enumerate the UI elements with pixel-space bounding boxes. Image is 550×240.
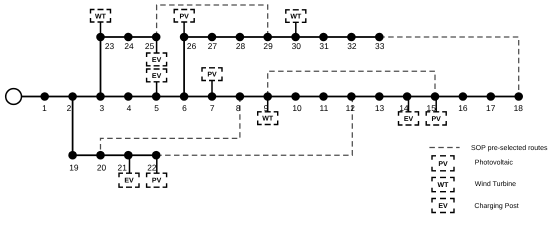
svg-text:27: 27 xyxy=(208,41,218,51)
svg-text:WT: WT xyxy=(95,13,107,20)
svg-text:16: 16 xyxy=(458,103,468,113)
svg-text:12: 12 xyxy=(346,103,356,113)
svg-text:7: 7 xyxy=(210,103,215,113)
svg-text:23: 23 xyxy=(105,41,115,51)
svg-text:14: 14 xyxy=(399,103,409,113)
svg-text:9: 9 xyxy=(264,103,269,113)
svg-text:Photovoltaic: Photovoltaic xyxy=(475,158,514,166)
svg-text:17: 17 xyxy=(486,103,496,113)
svg-text:Wind Turbine: Wind Turbine xyxy=(475,180,516,188)
svg-text:26: 26 xyxy=(187,41,197,51)
svg-text:18: 18 xyxy=(514,103,524,113)
svg-text:PV: PV xyxy=(207,72,217,79)
svg-text:20: 20 xyxy=(97,163,107,173)
svg-text:32: 32 xyxy=(347,41,357,51)
svg-text:PV: PV xyxy=(432,116,442,123)
svg-text:2: 2 xyxy=(67,103,72,113)
svg-text:13: 13 xyxy=(375,103,385,113)
svg-text:28: 28 xyxy=(236,41,246,51)
svg-text:25: 25 xyxy=(145,41,155,51)
svg-text:WT: WT xyxy=(262,116,274,123)
svg-text:WT: WT xyxy=(290,14,302,21)
svg-text:15: 15 xyxy=(427,103,437,113)
svg-text:24: 24 xyxy=(124,41,134,51)
svg-text:33: 33 xyxy=(375,41,385,51)
svg-text:EV: EV xyxy=(404,116,414,123)
svg-text:SOP pre-selected routes: SOP pre-selected routes xyxy=(471,144,548,152)
svg-text:19: 19 xyxy=(69,163,79,173)
svg-text:31: 31 xyxy=(319,41,329,51)
svg-text:PV: PV xyxy=(180,13,190,20)
svg-text:EV: EV xyxy=(124,178,134,185)
svg-text:EV: EV xyxy=(152,57,162,64)
svg-text:PV: PV xyxy=(152,178,162,185)
svg-text:3: 3 xyxy=(99,103,104,113)
svg-text:EV: EV xyxy=(152,73,162,80)
svg-text:11: 11 xyxy=(320,103,329,113)
svg-text:30: 30 xyxy=(292,41,302,51)
svg-text:1: 1 xyxy=(42,103,47,113)
svg-text:4: 4 xyxy=(127,103,132,113)
svg-text:Charging Post: Charging Post xyxy=(474,202,518,210)
svg-text:PV: PV xyxy=(438,161,448,168)
svg-text:WT: WT xyxy=(438,182,450,189)
svg-text:21: 21 xyxy=(118,163,128,173)
svg-text:29: 29 xyxy=(263,41,273,51)
svg-text:10: 10 xyxy=(292,103,302,113)
svg-text:5: 5 xyxy=(154,103,159,113)
svg-text:8: 8 xyxy=(236,103,241,113)
svg-text:22: 22 xyxy=(147,163,157,173)
svg-text:EV: EV xyxy=(438,203,448,210)
svg-text:6: 6 xyxy=(182,103,187,113)
